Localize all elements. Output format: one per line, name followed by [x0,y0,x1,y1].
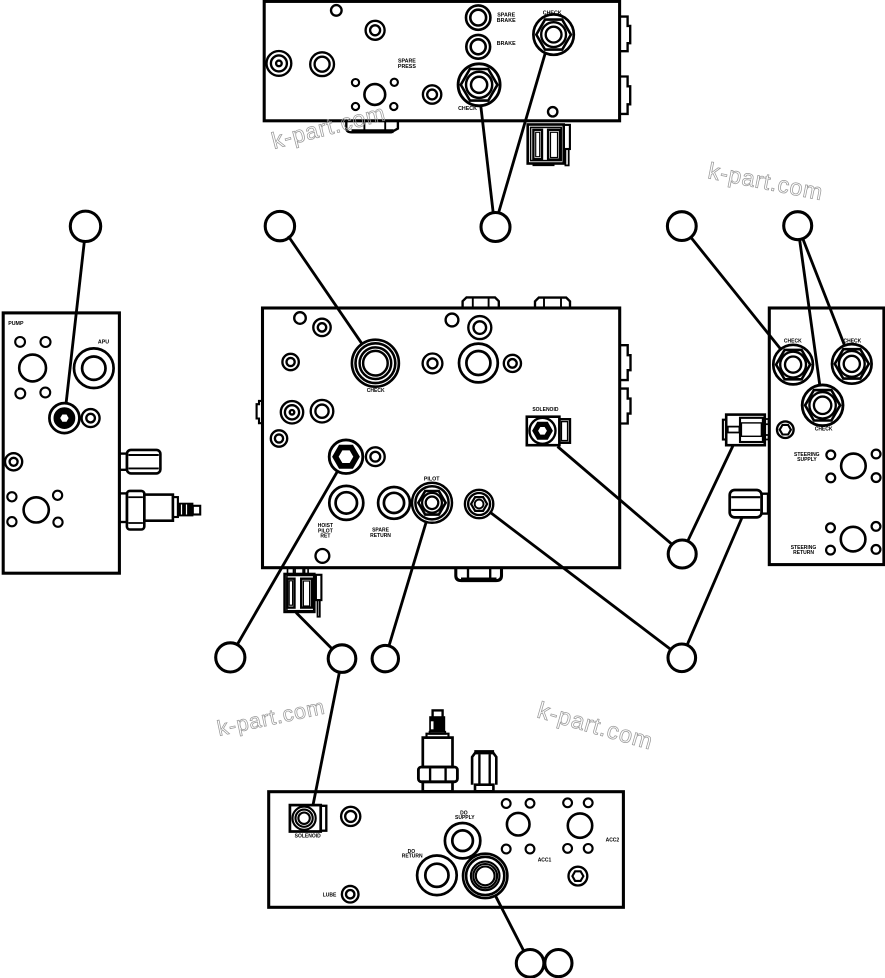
callout balloon K [516,950,544,978]
cluster bolt hole nw [352,79,359,86]
bolt hole top middle [446,314,459,327]
leader wire: balloon E to center check [800,240,820,386]
svg-text:k-part.com: k-part.com [215,695,327,741]
electrical connector below center block [287,568,289,574]
callout balloon G [216,643,245,672]
svg-text:SUPPLY: SUPPLY [797,457,817,463]
leader wire: upper check to balloon C [498,53,545,214]
port SPARE BRAKE [466,5,490,29]
bolt hole bottom of center block [316,549,330,563]
solenoid connector on left edge of right block (balloon F target) [726,415,765,446]
callout balloon B [265,211,294,240]
bolt holes row 2 [502,845,511,854]
port BRAKE [466,35,490,59]
solenoid on bottom block (balloon H target) [290,805,321,831]
pilot cartridge (balloon I target) [412,483,452,523]
leader wire: balloon G to hex plug [237,471,337,644]
svg-text:RETURN: RETURN [370,533,391,539]
pressure switch body [423,738,453,767]
callout balloon E [784,212,812,240]
small port ring right of plug [82,409,100,427]
svg-text:BRAKE: BRAKE [497,41,516,47]
port ring upper left [313,319,330,336]
center block left edge tab [257,401,263,423]
steering return bolt holes [826,523,835,532]
svg-text:ACC1: ACC1 [538,857,552,863]
center block right side fitting upper [620,345,631,380]
bolt holes row 1 [502,799,511,808]
svg-text:CHECK: CHECK [458,106,477,112]
port ring mid left [311,400,334,423]
hex socket plug (balloon G target) [329,440,363,474]
callout balloon I [372,645,398,671]
electrical connector below top block [528,125,564,164]
callout balloon H [328,645,356,673]
center block right side fitting lower [620,389,631,424]
pressure sensor fitting on right edge of left block [120,493,128,522]
hex port ring lower right [569,867,588,886]
callout balloon A [70,211,100,241]
bolt hole above connector [548,107,557,116]
left block bolt hole r2c1 [15,389,25,399]
callout balloon C [481,213,510,242]
svg-text:k-part.com: k-part.com [535,697,657,755]
svg-text:k-part.com: k-part.com [706,157,825,205]
small bolt hole top [331,5,342,16]
multi-ring cartridge (balloon K/L target) [463,854,507,898]
cluster bolt hole sw [352,103,359,110]
bottom manifold block outline [269,792,624,908]
ACC2 bore [568,813,592,837]
leader wire: connector to balloon F [688,446,733,541]
top manifold block: brake valve body outline [264,1,619,120]
port ring left-middle [310,52,334,76]
leader wire: cartridge to balloon K [495,896,523,951]
right steering manifold block outline [769,308,884,565]
small port lower left [271,430,287,446]
bolt hole top left of center block [294,312,306,324]
leader wire: lower check to balloon C [481,105,494,213]
check valve cartridge upper right (hex) [533,14,573,54]
pressure switch collar [430,732,446,734]
svg-text:CHECK: CHECK [784,339,802,345]
svg-text:CHECK: CHECK [543,10,562,16]
small port ring far right [504,355,521,372]
center main valve block outline [263,308,620,568]
callout balloon D [667,212,696,241]
steering supply bolt holes [826,451,835,460]
svg-text:APU: APU [98,339,109,345]
steering return bore [841,527,866,552]
hex coupling on left edge of right block (balloon J target) [730,490,762,517]
svg-text:PILOT: PILOT [424,477,440,483]
check valve cartridge lower (hex) [458,64,500,106]
svg-text:CHECK: CHECK [815,427,833,433]
svg-text:SUPPLY: SUPPLY [455,815,475,821]
svg-text:LUBE: LUBE [323,892,337,898]
leader wire: balloon B to main check [288,236,362,344]
leader wire: balloon A to hex socket plug [66,241,84,403]
large port ring upper right [459,344,498,383]
leader wire: balloon H to bottom solenoid [313,673,339,805]
ACC1 bore [507,813,530,836]
check cartridge center (balloon E target 2) [802,385,843,426]
APU port ring [74,348,114,388]
port ring right of check [423,354,443,374]
leader wire: balloon I to pilot cartridge [389,522,426,647]
pressure switch black body [430,717,445,732]
svg-text:k-part.com: k-part.com [269,99,388,153]
svg-text:BRAKE: BRAKE [497,18,516,24]
port DO RETURN [417,856,457,896]
left pump manifold block outline [3,313,119,573]
svg-text:CHECK: CHECK [367,388,385,394]
main check cartridge (balloon B target) [352,340,399,387]
cartridge cluster center bore [364,84,385,105]
steering supply bore [841,454,866,479]
gauge port with pilot ring left [267,51,292,76]
leader wire: balloon D to left check [691,237,781,349]
edge port ring on left border [5,453,22,470]
leader wire: small cartridge to balloon J [490,512,671,650]
svg-text:PRESS: PRESS [398,64,416,70]
leader wire: hex coupling to balloon J [687,518,742,646]
port plug upper middle [366,21,385,40]
top cap fitting left on center block [463,297,499,307]
left block bolt hole r3c1 [7,492,16,501]
small cartridge (balloon J target) [465,490,493,518]
cluster bolt hole se [390,103,397,110]
top block right side port fitting lower [620,77,630,114]
threaded plug on top of bottom block [474,750,494,753]
callout balloon F [668,540,696,568]
pressure switch base [423,782,453,792]
port ring right of cluster [423,85,441,103]
top cap fitting right on center block [535,298,570,307]
top block right side port fitting upper [620,17,630,52]
svg-text:RET: RET [320,534,330,540]
port ring top middle [468,316,491,339]
svg-text:RETURN: RETURN [793,550,814,556]
pressure switch on top of bottom block - tip [433,710,443,717]
leader wire: solenoid to balloon F [558,447,673,545]
solenoid valve on center block [527,417,560,446]
left block bolt hole r3c2 [53,491,62,500]
port LUBE [342,886,359,903]
leader wire: connector to balloon H [296,613,332,650]
callout balloon L [545,950,572,977]
left block bolt hole r2c2 [40,388,50,398]
leader wire: balloon E to right check [803,239,845,346]
check cartridge right (balloon E target) [832,344,872,384]
left block bolt hole r1c2 [41,337,51,347]
left block bolt hole r4c2 [53,518,62,527]
svg-text:RETURN: RETURN [402,853,423,859]
port DO SUPPLY [445,823,480,858]
hex socket plug (balloon A target) [49,403,79,433]
left block bolt hole r4c1 [7,517,16,526]
svg-text:ACC2: ACC2 [606,838,620,844]
svg-text:SOLENOID: SOLENOID [295,834,322,840]
center block bottom mounting tab [456,568,502,580]
port HOIST PILOT RET [329,486,363,520]
svg-text:SOLENOID: SOLENOID [532,407,559,413]
port ring right of bottom solenoid [341,807,360,826]
callout balloon J [668,644,696,672]
hex plug fitting on right edge of left block [120,454,128,470]
small hex port ring [777,421,794,438]
small ring right of hex plug [366,447,385,466]
port SPARE RETURN [378,487,410,519]
svg-text:PUMP: PUMP [8,321,24,327]
lower bore circle [24,497,49,522]
small port ring left of check [282,354,298,370]
cluster bolt hole ne [391,79,398,86]
svg-text:CHECK: CHECK [844,339,862,345]
left block bolt hole r1c1 [15,337,25,347]
pressure switch hex nut [418,767,457,782]
top block bottom mounting tab [346,122,398,133]
check cartridge left (balloon D target) [773,345,813,385]
pump bore circle [19,355,46,382]
gauge port with center dot [281,401,303,423]
